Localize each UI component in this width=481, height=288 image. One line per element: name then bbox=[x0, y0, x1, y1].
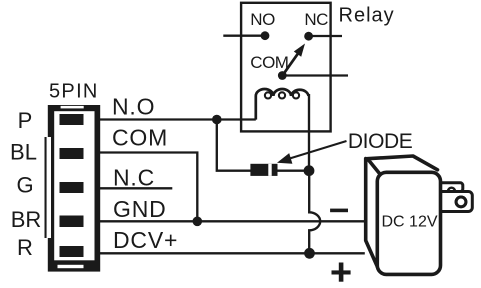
svg-text:DCV+: DCV+ bbox=[113, 227, 178, 253]
svg-text:Relay: Relay bbox=[339, 5, 395, 27]
svg-text:DC 12V: DC 12V bbox=[381, 214, 437, 231]
svg-text:BL: BL bbox=[10, 139, 37, 164]
svg-text:DIODE: DIODE bbox=[348, 130, 413, 153]
svg-text:N.C: N.C bbox=[113, 165, 155, 191]
svg-text:COM: COM bbox=[112, 125, 168, 151]
svg-text:NO: NO bbox=[250, 10, 275, 29]
svg-text:NC: NC bbox=[304, 10, 328, 29]
svg-text:5PIN: 5PIN bbox=[49, 80, 99, 102]
svg-text:P: P bbox=[18, 108, 33, 133]
svg-text:G: G bbox=[16, 172, 33, 197]
svg-text:N.O: N.O bbox=[112, 94, 155, 120]
svg-text:R: R bbox=[17, 235, 33, 260]
svg-text:COM: COM bbox=[250, 53, 288, 72]
svg-text:GND: GND bbox=[113, 196, 167, 222]
svg-text:BR: BR bbox=[11, 207, 42, 232]
